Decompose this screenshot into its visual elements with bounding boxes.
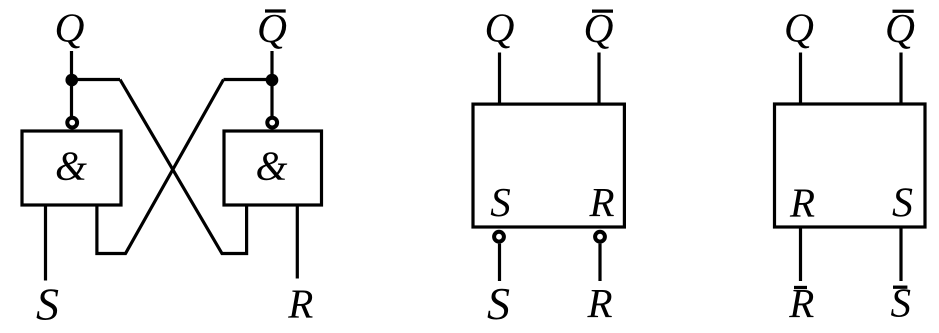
svg-text:S: S xyxy=(490,179,511,225)
svg-text:Q: Q xyxy=(257,5,287,51)
svg-text:&: & xyxy=(256,142,288,188)
svg-text:R: R xyxy=(287,281,313,327)
svg-text:Q: Q xyxy=(485,4,515,50)
svg-text:Q: Q xyxy=(584,5,614,51)
svg-text:R: R xyxy=(588,179,614,225)
svg-text:S: S xyxy=(487,278,510,329)
svg-text:R: R xyxy=(586,280,612,326)
svg-text:Q: Q xyxy=(885,5,915,51)
svg-text:S: S xyxy=(892,181,913,227)
svg-text:R: R xyxy=(788,280,814,326)
svg-text:Q: Q xyxy=(784,4,814,50)
svg-text:Q: Q xyxy=(55,4,85,50)
svg-text:R: R xyxy=(789,180,815,226)
svg-text:&: & xyxy=(55,142,87,188)
svg-text:S: S xyxy=(890,280,911,326)
svg-text:S: S xyxy=(36,279,59,330)
